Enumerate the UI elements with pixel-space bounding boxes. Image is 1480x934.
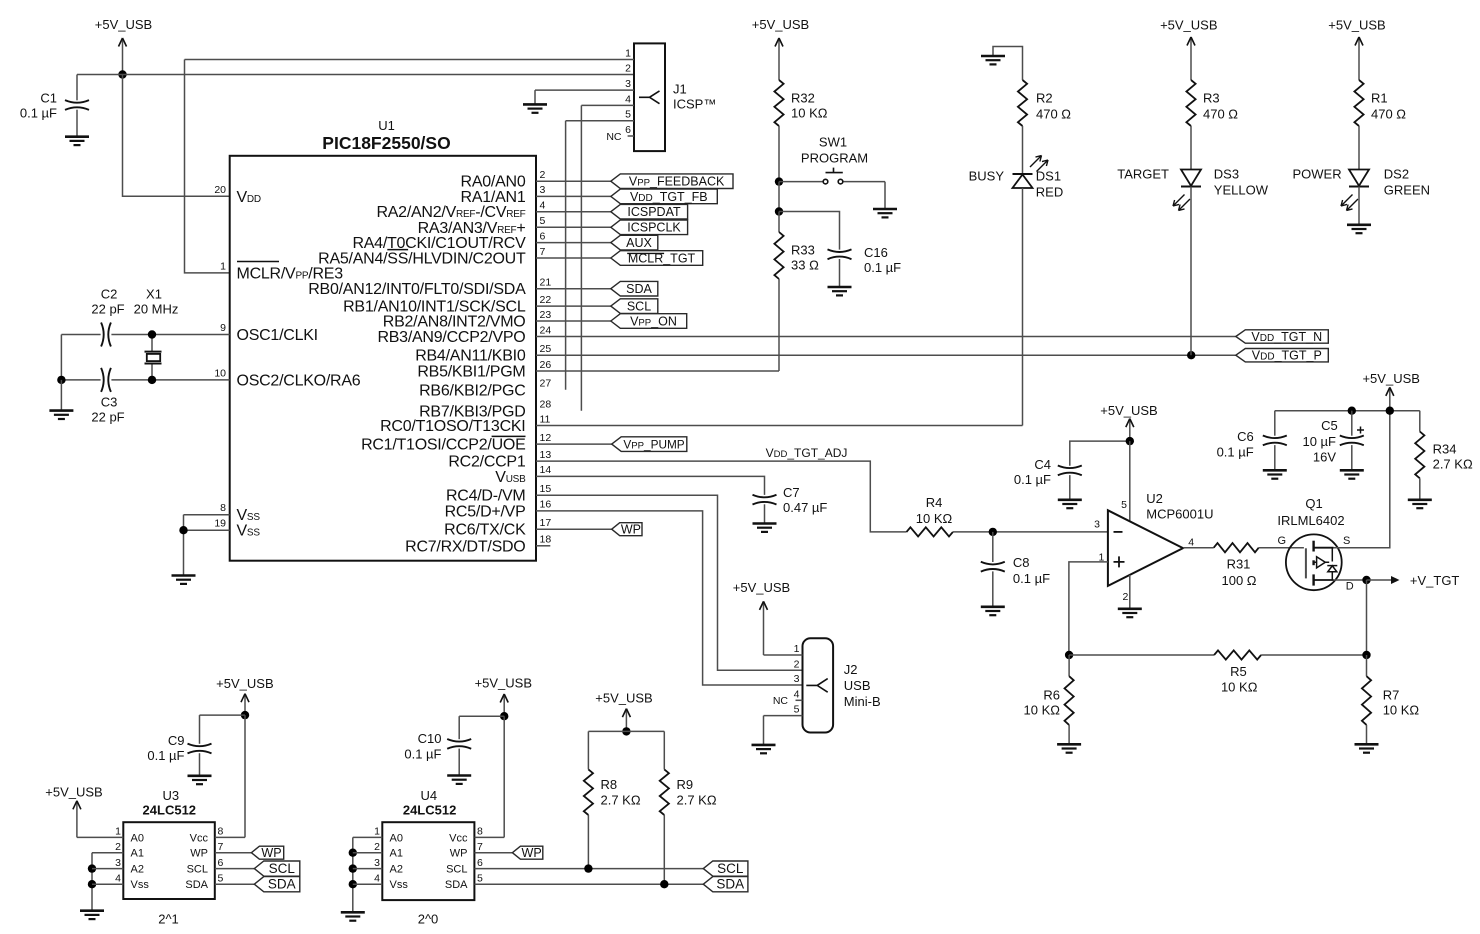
svg-text:+5V_USB: +5V_USB [95, 17, 152, 32]
svg-text:10 KΩ: 10 KΩ [916, 511, 953, 526]
svg-text:R2: R2 [1036, 91, 1053, 106]
svg-text:24: 24 [540, 324, 552, 336]
wire U4 Vss [353, 883, 383, 885]
wire to SW1 left contact [779, 181, 823, 183]
svg-text:SCL: SCL [269, 861, 296, 876]
ground DS2 [1347, 225, 1371, 233]
resistor R33 [774, 232, 783, 279]
wire U3 SDA [215, 883, 255, 885]
svg-text:IRLML6402: IRLML6402 [1277, 513, 1344, 528]
svg-text:8: 8 [220, 502, 226, 514]
svg-text:C2: C2 [101, 287, 118, 302]
wire U4 WP [474, 852, 512, 854]
resistor R2 [1018, 80, 1027, 126]
svg-text:SCL: SCL [717, 861, 744, 876]
svg-text:470 Ω: 470 Ω [1036, 107, 1071, 122]
+5V_USB power symbol (U4 Vcc) [475, 675, 532, 716]
svg-text:0.47 µF: 0.47 µF [783, 500, 827, 515]
capacitor C9 [147, 715, 245, 776]
overline UOE [492, 435, 526, 437]
svg-text:6: 6 [218, 857, 224, 869]
svg-text:17: 17 [540, 517, 552, 529]
wire U4 A1 [353, 852, 383, 854]
svg-text:WP: WP [621, 523, 641, 537]
svg-text:8: 8 [477, 826, 483, 838]
svg-text:R5: R5 [1230, 664, 1247, 679]
svg-text:A1: A1 [131, 848, 144, 860]
wire Q1 source to +5V rail [1334, 411, 1390, 548]
capacitor C10 [404, 716, 504, 775]
svg-text:ICSPCLK: ICSPCLK [627, 221, 681, 235]
svg-text:1: 1 [220, 260, 226, 272]
wire C7 bottom stem [764, 504, 766, 523]
svg-text:U2: U2 [1146, 491, 1163, 506]
wire R8 to SCL [587, 815, 589, 869]
svg-text:13: 13 [540, 449, 552, 461]
capacitor C16 plates [828, 249, 852, 259]
wire RA4 to AUX [536, 242, 611, 244]
svg-text:8: 8 [218, 826, 224, 838]
ground C7 [753, 524, 777, 532]
overline SS [387, 249, 408, 251]
svg-text:18: 18 [540, 534, 552, 546]
svg-text:C4: C4 [1034, 457, 1051, 472]
svg-text:1: 1 [115, 826, 121, 838]
svg-text:A0: A0 [131, 832, 144, 844]
wire RA3 to ICSPCLK [536, 226, 611, 228]
svg-text:RC2/CCP1: RC2/CCP1 [448, 454, 525, 471]
ground C4 [1058, 500, 1082, 508]
svg-text:RC6/TX/CK: RC6/TX/CK [444, 522, 526, 539]
wire U3 WP [215, 852, 252, 854]
junction +5V/C10 [500, 712, 508, 720]
capacitor C4 plates [1058, 466, 1082, 476]
wire C10 bottom stem [458, 749, 460, 776]
ground C8 [981, 607, 1005, 615]
junction DS3/Vdd_TGT_P [1187, 351, 1195, 359]
LED DS1 BUSY (red) [969, 156, 1064, 200]
wire U2 pin2 to ground [1129, 575, 1131, 609]
svg-text:DS1: DS1 [1036, 169, 1061, 184]
svg-text:+V_TGT: +V_TGT [1410, 573, 1460, 588]
junction R8/SCL [584, 864, 592, 872]
wire RB5/PGM to R33 [536, 370, 779, 372]
capacitor C5 plates [1340, 436, 1364, 446]
svg-text:14: 14 [540, 464, 552, 476]
wire +V_TGT to R5/R7 node [1366, 580, 1368, 655]
svg-text:7: 7 [218, 841, 224, 853]
wire U3 address common [91, 853, 93, 911]
svg-text:POWER: POWER [1292, 167, 1341, 182]
wire R8 top [587, 731, 589, 769]
svg-text:4: 4 [794, 688, 800, 700]
wire J1 pin1 to MCLR vertical [185, 59, 635, 61]
svg-text:+5V_USB: +5V_USB [45, 784, 102, 799]
wire J1 pin3 to ground [535, 90, 634, 104]
wire C10 top stem [458, 716, 460, 739]
net flag AUX [611, 235, 658, 250]
svg-text:2.7 KΩ: 2.7 KΩ [601, 793, 641, 808]
svg-text:+5V_USB: +5V_USB [1100, 403, 1157, 418]
resistor R31 [1214, 543, 1259, 552]
net flag WP (U3) [251, 846, 283, 859]
svg-text:R9: R9 [677, 777, 694, 792]
svg-text:SDA: SDA [185, 879, 208, 891]
ground U4 [341, 912, 365, 920]
wire DS2 to ground [1358, 187, 1360, 225]
svg-text:+5V_USB: +5V_USB [1362, 371, 1419, 386]
svg-text:5: 5 [218, 872, 224, 884]
IC U1 PIC18F2550/SO body [230, 156, 536, 561]
svg-text:1: 1 [374, 826, 380, 838]
svg-text:22 pF: 22 pF [91, 302, 124, 317]
svg-text:X1: X1 [146, 287, 162, 302]
svg-text:VDD_TGT_FB: VDD_TGT_FB [630, 190, 708, 204]
svg-text:SDA: SDA [445, 879, 468, 891]
wire VSS down [183, 515, 185, 576]
svg-text:DS3: DS3 [1214, 167, 1239, 182]
svg-text:23: 23 [540, 309, 552, 321]
net flag VPP_ON [611, 314, 687, 329]
svg-text:RA2/AN2/VREF-/CVREF: RA2/AN2/VREF-/CVREF [376, 204, 525, 221]
svg-text:C9: C9 [168, 733, 185, 748]
net flag SCL (U3) [254, 861, 299, 876]
capacitor C6 [1217, 411, 1287, 471]
wire C8 bottom stem [992, 571, 994, 606]
wire RC1 to VPP_PUMP [536, 443, 612, 445]
wire U3 A1 [92, 852, 123, 854]
svg-text:3: 3 [540, 184, 546, 196]
junction +input/R5/R6 [1065, 651, 1073, 659]
capacitor C1 [20, 75, 89, 137]
svg-text:3: 3 [794, 673, 800, 685]
wire X1 bottom stem [151, 364, 153, 380]
svg-text:C8: C8 [1013, 555, 1030, 570]
ground C6 [1263, 470, 1287, 478]
+5V_USB power symbol (R3) [1160, 18, 1217, 81]
connector J1 ICSP [634, 43, 716, 151]
wire +5V to U1 VDD pin20 [123, 75, 230, 197]
wire C1 bottom stem [76, 110, 78, 137]
junction U4 A1 [349, 849, 357, 857]
svg-text:24LC512: 24LC512 [403, 803, 456, 818]
junction rail/source [1386, 407, 1394, 415]
svg-text:+5V_USB: +5V_USB [752, 17, 809, 32]
junction U4 Vss [349, 880, 357, 888]
wire J1 pin4 down to RB7/PGD [581, 105, 634, 410]
wire J2 pin4 NC stub [796, 699, 803, 701]
ground C5 [1340, 470, 1364, 478]
wire RC2 VDD_TGT_ADJ to R4 [536, 461, 907, 532]
wire J1 pin6 NC stub [628, 135, 634, 137]
wire Q1 drain to +V_TGT node [1334, 579, 1367, 581]
net flag WP (U1) [612, 523, 642, 536]
ground C16 [828, 287, 852, 295]
svg-text:27: 27 [540, 378, 552, 390]
svg-text:9: 9 [220, 322, 226, 334]
wire R6 bottom [1068, 725, 1070, 744]
junction +5V/C1/VDD [118, 70, 126, 78]
svg-text:470 Ω: 470 Ω [1203, 107, 1238, 122]
svg-text:0.1 µF: 0.1 µF [1217, 445, 1254, 460]
wire R3 to DS3 [1190, 126, 1192, 170]
svg-text:2.7 KΩ: 2.7 KΩ [1433, 457, 1473, 472]
wire +5V to U3 Vcc [215, 715, 245, 837]
wire +5V to U4 Vcc [474, 716, 504, 837]
svg-text:R31: R31 [1227, 557, 1251, 572]
net flag SCL [611, 299, 658, 314]
svg-text:J2: J2 [844, 662, 858, 677]
capacitor C3 plates [101, 368, 111, 392]
junction +5V/C9 [241, 711, 249, 719]
svg-text:VPP_PUMP: VPP_PUMP [623, 438, 684, 452]
wire to C16 [779, 212, 840, 250]
ground U1 VSS [172, 576, 196, 584]
net flag MCLR_TGT [611, 251, 703, 266]
resistor R8 [584, 769, 593, 815]
svg-text:R6: R6 [1043, 688, 1060, 703]
ground J2 [752, 745, 776, 753]
svg-text:R8: R8 [601, 777, 618, 792]
svg-text:RB5/KBI1/PGM: RB5/KBI1/PGM [417, 364, 525, 381]
junction R32/SW1/R33 [775, 177, 783, 185]
svg-text:+5V_USB: +5V_USB [595, 691, 652, 706]
wire R2 to DS1 [1022, 126, 1024, 174]
net flag Vdd_TGT_P [1236, 349, 1329, 362]
wire RC7 stub [536, 545, 550, 547]
svg-text:0.1 µF: 0.1 µF [864, 260, 901, 275]
net flag VPP_FEEDBACK [611, 174, 733, 189]
svg-text:3: 3 [1094, 518, 1100, 530]
svg-text:C3: C3 [101, 395, 118, 410]
svg-text:Vss: Vss [390, 879, 409, 891]
ground SW1 [873, 209, 897, 217]
svg-text:RB0/AN12/INT0/FLT0/SDI/SDA: RB0/AN12/INT0/FLT0/SDI/SDA [308, 281, 526, 298]
wire R5 right [1261, 654, 1366, 656]
capacitor C9 plates [188, 744, 212, 754]
svg-text:OSC2/CLKO/RA6: OSC2/CLKO/RA6 [237, 372, 361, 389]
wire C4 bottom stem [1069, 475, 1071, 500]
svg-text:16: 16 [540, 499, 552, 511]
wire U3 Vss [92, 883, 123, 885]
wire C9 top stem [199, 715, 201, 744]
capacitor C5 (polarized) [1302, 411, 1364, 471]
svg-text:BUSY: BUSY [969, 169, 1005, 184]
+5V_USB power symbol (U2) [1100, 403, 1157, 441]
capacitor C8 [981, 532, 1050, 607]
capacitor C8 plates [981, 562, 1005, 572]
wire RB0 to SDA [536, 288, 611, 290]
capacitor C4 [1014, 441, 1130, 500]
wire C10 top [459, 715, 504, 717]
junction R33/C16 [775, 207, 783, 215]
svg-text:2: 2 [115, 841, 121, 853]
transistor Q1 IRLML6402 (P-MOSFET) [1277, 496, 1353, 593]
svg-text:U1: U1 [378, 118, 395, 133]
svg-text:SDA: SDA [716, 877, 744, 892]
ground C10 [447, 776, 471, 784]
svg-text:RC4/D-/VM: RC4/D-/VM [446, 488, 526, 505]
wire R34 bottom [1419, 478, 1421, 500]
ground R34 [1408, 500, 1432, 508]
svg-text:R32: R32 [791, 91, 815, 106]
svg-text:2^1: 2^1 [158, 912, 179, 927]
capacitor C1 plates [65, 100, 89, 110]
capacitor C6 plates [1263, 436, 1287, 446]
+5V_USB power symbol (rail) [1362, 371, 1419, 411]
+5V_USB power symbol (U3 Vcc) [216, 676, 273, 715]
svg-text:2^0: 2^0 [418, 912, 439, 927]
svg-text:4: 4 [115, 872, 121, 884]
svg-text:C7: C7 [783, 485, 800, 500]
junction X1/OSC2 [148, 376, 156, 384]
svg-text:R33: R33 [791, 243, 815, 258]
svg-text:A2: A2 [131, 864, 144, 876]
op-amp U2 MCP6001U [1094, 491, 1213, 603]
svg-text:3: 3 [115, 857, 121, 869]
wire C5 bottom stem [1351, 445, 1353, 470]
svg-text:R34: R34 [1433, 442, 1457, 457]
resistor R34 body [1415, 432, 1424, 479]
net flag SDA [611, 281, 658, 296]
svg-text:24LC512: 24LC512 [143, 803, 196, 818]
wire R6 top [1068, 655, 1070, 676]
svg-text:RB4/AN11/KBI0: RB4/AN11/KBI0 [415, 348, 526, 365]
wire RA2 to ICSPDAT [536, 211, 611, 213]
wire C2/C3 common [60, 335, 62, 380]
svg-text:A2: A2 [390, 864, 403, 876]
wire OSC1 left of C2 [61, 334, 100, 336]
svg-text:WP: WP [190, 848, 208, 860]
wire RB2 to VPP_ON [536, 320, 611, 322]
svg-text:C5: C5 [1321, 418, 1338, 433]
svg-text:WP: WP [522, 846, 542, 860]
wire R33 to RB5/PGM [778, 279, 780, 371]
connector J2 USB Mini-B [803, 638, 881, 732]
wire +5V to J2 pin1 [764, 654, 803, 656]
overline MCLR_TGT [627, 252, 664, 254]
wire RB3 to Vdd_TGT_N [536, 336, 1236, 338]
wire RC5/D+ to J2 pin3 [536, 511, 803, 685]
svg-text:5: 5 [1121, 499, 1127, 511]
svg-text:NC: NC [606, 131, 622, 143]
svg-text:2: 2 [374, 841, 380, 853]
resistor R5 [1214, 650, 1261, 659]
svg-text:U3: U3 [162, 788, 179, 803]
wire to U1 MCLR pin1 [185, 60, 230, 273]
svg-text:Vcc: Vcc [449, 832, 468, 844]
svg-text:4: 4 [1188, 536, 1194, 548]
svg-text:R7: R7 [1383, 688, 1400, 703]
svg-text:+5V_USB: +5V_USB [475, 675, 532, 690]
wire R8/R9 rail [588, 730, 664, 732]
svg-text:YELLOW: YELLOW [1214, 183, 1269, 198]
wire U4 A2 [353, 868, 383, 870]
svg-text:VPP_ON: VPP_ON [630, 314, 677, 328]
svg-text:PROGRAM: PROGRAM [801, 151, 868, 166]
wire R31 to Q1 gate [1259, 547, 1304, 549]
svg-text:19: 19 [214, 518, 226, 530]
junction R5/R7/drain [1362, 651, 1370, 659]
svg-text:11: 11 [540, 413, 551, 425]
wire RC0 row [536, 425, 1023, 427]
wire SW1 node to R33 node [778, 182, 780, 212]
wire R9 to SDA [663, 815, 665, 884]
capacitor C7 [753, 485, 828, 524]
svg-text:SCL: SCL [187, 864, 208, 876]
svg-text:U4: U4 [420, 788, 437, 803]
svg-text:10 KΩ: 10 KΩ [1383, 703, 1420, 718]
wire C16 bottom stem [839, 259, 841, 287]
wire +5V rail [1275, 410, 1420, 412]
+5V_USB power symbol (R1) [1328, 18, 1385, 81]
wire to R33 [778, 212, 780, 233]
svg-text:10 KΩ: 10 KΩ [791, 106, 828, 121]
wire U4 address common [352, 837, 354, 912]
svg-text:+5V_USB: +5V_USB [216, 676, 273, 691]
svg-text:1: 1 [794, 643, 800, 655]
net flag ICSPDAT [611, 204, 688, 219]
svg-text:SCL: SCL [627, 300, 651, 314]
svg-text:RB3/AN9/CCP2/VPO: RB3/AN9/CCP2/VPO [377, 329, 525, 346]
svg-text:6: 6 [477, 857, 483, 869]
net flag VPP_PUMP [612, 437, 687, 452]
svg-text:DS2: DS2 [1384, 167, 1409, 182]
svg-text:MCLR/VPP/RE3: MCLR/VPP/RE3 [237, 265, 344, 282]
wire left of C3 [61, 379, 100, 381]
ground U3 [80, 911, 104, 919]
svg-text:SDA: SDA [268, 877, 296, 892]
wire R34 top [1419, 411, 1421, 432]
wire X1 top stem [151, 335, 153, 352]
junction X1/OSC1 [148, 330, 156, 338]
capacitor C10 plates [447, 739, 471, 749]
svg-text:RB2/AN8/INT2/VMO: RB2/AN8/INT2/VMO [383, 314, 526, 331]
junction U4 A2 [349, 864, 357, 872]
wire RA5 to MCLR_TGT [536, 257, 611, 259]
wire RC4/D- to J2 pin2 [536, 495, 803, 670]
svg-text:VDD_TGT_P: VDD_TGT_P [1252, 349, 1322, 363]
wire to crystal ground [60, 380, 62, 411]
svg-text:3: 3 [374, 857, 380, 869]
svg-text:0.1 µF: 0.1 µF [1013, 571, 1050, 586]
svg-text:D: D [1346, 580, 1354, 592]
net flag SDA (U3) [254, 877, 299, 892]
junction R8/R9 rail [622, 727, 630, 735]
ground C9 [188, 776, 212, 784]
+5V_USB power symbol (U3 A0) [45, 784, 102, 837]
svg-text:100 Ω: 100 Ω [1221, 573, 1256, 588]
junction U3 Vss [88, 880, 96, 888]
LED DS3 TARGET (yellow) [1117, 167, 1268, 211]
svg-text:GREEN: GREEN [1384, 183, 1430, 198]
svg-text:4: 4 [625, 93, 631, 105]
net flag ICSPCLK [611, 220, 688, 235]
capacitor C2 [61, 287, 229, 347]
wire RB1 to SCL [536, 305, 611, 307]
IC U3 24LC512 body [123, 822, 215, 899]
+5V_USB power symbol (top-left) [95, 17, 152, 75]
resistor R1 [1354, 80, 1363, 126]
svg-text:20: 20 [214, 184, 226, 196]
svg-text:470 Ω: 470 Ω [1371, 107, 1406, 122]
capacitor C3 [61, 368, 229, 425]
ground R7 [1355, 744, 1379, 752]
svg-text:C1: C1 [40, 91, 57, 106]
svg-text:C10: C10 [418, 731, 442, 746]
net flag VDD_TGT_FB [611, 189, 718, 204]
svg-text:4: 4 [374, 872, 380, 884]
